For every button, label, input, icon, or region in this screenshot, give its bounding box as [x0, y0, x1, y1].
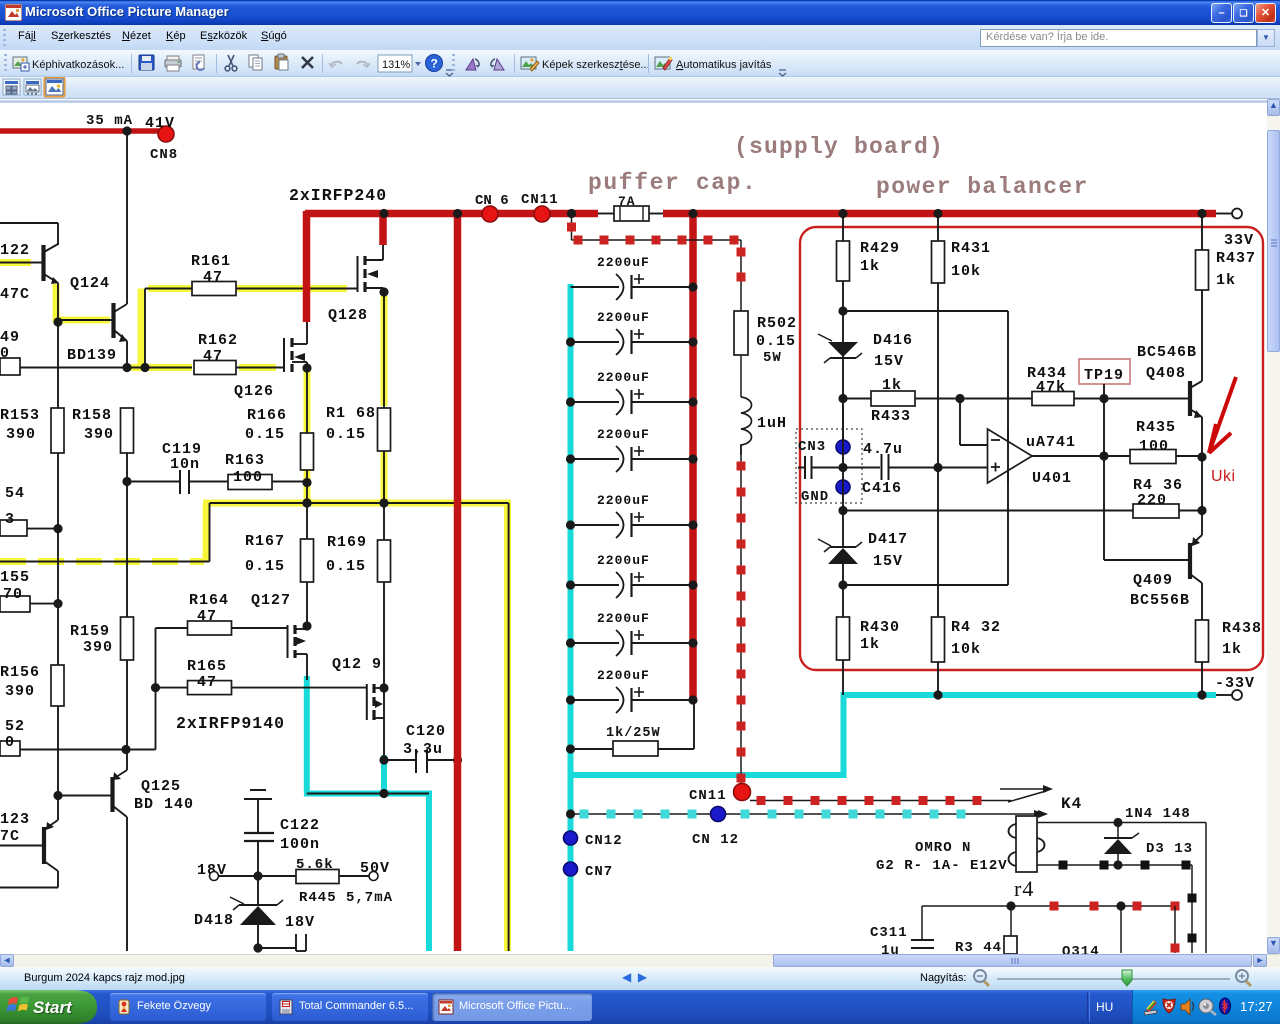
connector CN7 — [564, 862, 578, 876]
svg-text:R159: R159 — [70, 623, 110, 640]
resistor R430 — [837, 617, 850, 660]
svg-text:1uH: 1uH — [757, 415, 787, 432]
wire red-dotted from rail — [571, 216, 573, 240]
resistor R437 — [1201, 217, 1203, 250]
svg-text:2200uF: 2200uF — [597, 553, 650, 568]
svg-text:33V: 33V — [1224, 232, 1254, 249]
image top edge — [0, 100, 1267, 103]
svg-text:R165: R165 — [187, 658, 227, 675]
svg-text:R153: R153 — [0, 407, 40, 424]
svg-text:50V: 50V — [360, 860, 390, 877]
zener D418 — [257, 876, 259, 904]
op-amp U401 uA741 — [959, 399, 961, 446]
capacitor 2200uF #1 — [571, 286, 620, 288]
svg-text:R4 32: R4 32 — [951, 619, 1001, 636]
svg-text:390: 390 — [83, 639, 113, 656]
svg-text:OMRO N: OMRO N — [915, 840, 971, 856]
wire x58 — [57, 283, 59, 408]
delete X — [302, 57, 313, 68]
svg-text:R429: R429 — [860, 240, 900, 257]
wire x307 to R167 — [306, 470, 308, 539]
wire y503 row — [209, 503, 211, 562]
svg-text:D416: D416 — [873, 332, 913, 349]
svg-text:Képhivatkozások...: Képhivatkozások... — [32, 59, 124, 71]
switch K4 — [1000, 788, 1043, 790]
resistor R432 — [932, 617, 945, 662]
svg-text:R161: R161 — [191, 253, 231, 270]
cyan wire from Q127/Q129 source — [304, 676, 310, 794]
svg-text:C120: C120 — [406, 723, 446, 740]
svg-text:R431: R431 — [951, 240, 991, 257]
rail node dots — [379, 209, 388, 218]
svg-text:1k: 1k — [860, 258, 880, 275]
svg-text:R435: R435 — [1136, 419, 1176, 436]
svg-text:131%: 131% — [382, 59, 410, 71]
svg-text:47: 47 — [203, 269, 223, 286]
testpoint TP19 — [1079, 359, 1130, 384]
power balancer outline box — [800, 227, 1263, 670]
svg-text:CN11: CN11 — [689, 788, 727, 804]
svg-text:390: 390 — [5, 683, 35, 700]
svg-text:220: 220 — [1137, 492, 1167, 509]
start button — [0, 990, 110, 1024]
resistor R158 — [121, 408, 134, 453]
picture link icon — [13, 57, 29, 71]
svg-text:1N4 148: 1N4 148 — [1125, 806, 1191, 822]
volume gray — [1199, 999, 1213, 1013]
svg-text:70: 70 — [3, 586, 23, 603]
undo/redo grayed — [329, 62, 342, 67]
svg-text:1u: 1u — [881, 943, 900, 954]
svg-text:Start: Start — [33, 998, 73, 1017]
svg-text:47k: 47k — [1036, 379, 1066, 396]
svg-text:2200uF: 2200uF — [597, 310, 650, 325]
svg-text:47: 47 — [203, 348, 223, 365]
annotation red arrow Uki — [1209, 377, 1236, 453]
transistor Q314 stub — [1120, 906, 1122, 953]
zener D416 — [818, 334, 832, 341]
capacitor C311 — [921, 906, 923, 940]
svg-text:Q124: Q124 — [70, 275, 110, 292]
resistor R445 — [296, 870, 339, 884]
svg-text:Automatikus javítás: Automatikus javítás — [676, 59, 772, 71]
node dots x58 — [53, 317, 62, 326]
wire cyan-dashed net — [571, 813, 1041, 815]
resistor R436 — [843, 510, 1133, 512]
resistor 1k/25W — [566, 744, 575, 753]
red wire drop to Q126 — [303, 211, 311, 322]
svg-text:5W: 5W — [763, 350, 782, 366]
resistor R438 — [1201, 583, 1203, 620]
diode D313 1N4148 — [1117, 823, 1119, 840]
svg-text:2xIRFP240: 2xIRFP240 — [289, 186, 387, 205]
wire crossing op-amp — [1007, 429, 1009, 483]
svg-text:CN3: CN3 — [798, 439, 826, 455]
resistor R161 — [145, 288, 358, 290]
svg-text:41V: 41V — [145, 115, 175, 132]
svg-text:1k: 1k — [1222, 641, 1242, 658]
svg-text:R3 44: R3 44 — [955, 940, 1002, 954]
capacitor 2200uF #3 — [571, 401, 620, 403]
wire 35mA rail stub — [126, 131, 128, 304]
svg-text:R437: R437 — [1216, 250, 1256, 267]
relay r4 OMRON coil — [1016, 816, 1037, 872]
shield — [1163, 999, 1175, 1013]
svg-text:10k: 10k — [951, 641, 981, 658]
svg-text:100: 100 — [233, 469, 263, 486]
speaker orange — [1181, 999, 1190, 1015]
connector CN12 — [564, 831, 578, 845]
svg-text:R502: R502 — [757, 315, 797, 332]
red wire center bus — [454, 214, 462, 951]
svg-text:D418: D418 — [194, 912, 234, 929]
resistor R431 — [937, 216, 939, 241]
wire red-dashed K4 feed — [750, 800, 1011, 802]
svg-text:2200uF: 2200uF — [597, 427, 650, 442]
grip 2 — [456, 55, 458, 72]
svg-text:122: 122 — [0, 242, 30, 259]
capacitor 2200uF #2 — [571, 341, 620, 343]
svg-text:R169: R169 — [327, 534, 367, 551]
attach/preview — [193, 55, 204, 70]
svg-text:49: 49 — [0, 329, 20, 346]
svg-text:K4: K4 — [1061, 795, 1082, 813]
svg-text:123: 123 — [0, 811, 30, 828]
connector CN6 — [482, 206, 498, 222]
svg-text:(supply board): (supply board) — [734, 134, 944, 160]
capacitor C416 4.7u — [881, 454, 883, 480]
svg-text:C416: C416 — [862, 480, 902, 497]
cyan wire -33V rail — [841, 692, 1217, 698]
svg-text:R162: R162 — [198, 332, 238, 349]
capacitor C122 — [244, 832, 274, 834]
svg-text:CN12: CN12 — [585, 833, 623, 849]
svg-text:BD 140: BD 140 — [134, 796, 194, 813]
svg-text:R156: R156 — [0, 664, 40, 681]
resistor R435 — [1130, 450, 1176, 464]
svg-text:?: ? — [431, 57, 438, 71]
rotate right — [491, 59, 505, 70]
capacitor 2200uF #5 — [571, 524, 620, 526]
wire op-amp output — [1032, 455, 1130, 457]
svg-text:7C: 7C — [0, 828, 20, 845]
svg-text:U401: U401 — [1032, 470, 1072, 487]
connector CN12b — [711, 807, 726, 822]
resistor R433 — [838, 394, 847, 403]
svg-text:2200uF: 2200uF — [597, 611, 650, 626]
toolbar 2 view buttons — [0, 77, 80, 99]
svg-text:1k: 1k — [1216, 272, 1236, 289]
cyan wire capbank bus — [568, 284, 574, 951]
svg-text:0.15: 0.15 — [326, 426, 366, 443]
svg-text:R164: R164 — [189, 592, 229, 609]
svg-text:47: 47 — [197, 674, 217, 691]
resistor R156 — [51, 665, 64, 706]
svg-text:0.15: 0.15 — [245, 426, 285, 443]
task buttons — [110, 993, 266, 1021]
svg-text:1k: 1k — [860, 636, 880, 653]
svg-text:0: 0 — [5, 734, 15, 751]
pen tablet icon — [1144, 1010, 1157, 1015]
wire y793 row — [307, 793, 429, 795]
red wire 35mA rail — [0, 128, 159, 134]
svg-text:100n: 100n — [280, 836, 320, 853]
svg-text:7A: 7A — [618, 194, 636, 209]
capacitor 2200uF #8 — [571, 699, 620, 701]
svg-text:R163: R163 — [225, 452, 265, 469]
svg-text:GND: GND — [801, 489, 829, 505]
wire relay bottom pin black-dashed — [1037, 864, 1192, 866]
capacitor 2200uF #6 — [571, 584, 620, 586]
connector CN8 — [158, 126, 174, 142]
transistor Q409 — [1188, 543, 1192, 579]
svg-text:R1 68: R1 68 — [326, 405, 376, 422]
resistor R163 — [228, 475, 272, 490]
resistor R159 — [121, 617, 134, 660]
svg-text:10k: 10k — [951, 263, 981, 280]
svg-text:Képek szerkesztése...: Képek szerkesztése... — [542, 59, 650, 71]
resistor R153 — [51, 408, 64, 453]
connector block CN3/GND — [796, 429, 862, 503]
wire red-dotted to CN11 — [740, 455, 742, 786]
svg-text:r4: r4 — [1014, 876, 1034, 901]
cyan wire branch to -33V — [571, 772, 844, 778]
svg-text:D3 13: D3 13 — [1146, 841, 1193, 857]
capacitor C119 — [127, 481, 180, 483]
svg-text:0.15: 0.15 — [756, 333, 796, 350]
red wire stub Q128 — [379, 214, 387, 245]
svg-text:Q126: Q126 — [234, 383, 274, 400]
svg-text:CN 6: CN 6 — [475, 193, 509, 209]
resistor R344 — [1010, 906, 1012, 936]
svg-text:54: 54 — [5, 485, 25, 502]
svg-text:3,3u: 3,3u — [403, 741, 443, 758]
resistor R152 stub — [0, 741, 20, 756]
wire relay top pin — [1037, 822, 1206, 824]
wire to cap stub — [258, 947, 296, 949]
svg-text:155: 155 — [0, 569, 30, 586]
svg-text:Q127: Q127 — [251, 592, 291, 609]
svg-text:0: 0 — [0, 345, 10, 362]
red wire capbank bus — [689, 214, 697, 700]
wire top-left corner — [0, 222, 58, 224]
svg-text:Q12 9: Q12 9 — [332, 656, 382, 673]
resistor R165 — [156, 687, 367, 689]
resistor R166 — [301, 433, 314, 470]
svg-text:2200uF: 2200uF — [597, 370, 650, 385]
resistor R155 stub — [0, 596, 30, 612]
svg-text:CN 12: CN 12 — [692, 832, 739, 848]
svg-text:BD139: BD139 — [67, 347, 117, 364]
capacitor C120 — [384, 759, 416, 761]
resistor R168 — [378, 408, 391, 451]
terminal 50V — [369, 872, 378, 881]
svg-text:uA741: uA741 — [1026, 434, 1076, 451]
terminal 33V — [1216, 213, 1232, 215]
svg-text:R167: R167 — [245, 533, 285, 550]
transistor Q124 — [111, 303, 115, 338]
bluetooth — [1220, 998, 1231, 1014]
svg-text:Q128: Q128 — [328, 307, 368, 324]
svg-text:47C: 47C — [0, 286, 30, 303]
svg-text:2xIRFP9140: 2xIRFP9140 — [176, 714, 285, 733]
wire reference rect — [843, 310, 1008, 312]
svg-text:15V: 15V — [874, 353, 904, 370]
zener D417 — [818, 539, 831, 546]
connector CN11a — [534, 206, 550, 222]
picture edit icon — [521, 57, 539, 71]
svg-text:R430: R430 — [860, 619, 900, 636]
wire y367 row — [20, 367, 192, 369]
svg-text:R166: R166 — [247, 407, 287, 424]
svg-text:1k: 1k — [882, 377, 902, 394]
svg-text:47: 47 — [197, 608, 217, 625]
transistor Q123 — [42, 827, 46, 864]
svg-text:D417: D417 — [868, 531, 908, 548]
resistor R167 — [301, 539, 314, 582]
wire y750 row — [126, 749, 156, 751]
svg-text:52: 52 — [5, 718, 25, 735]
svg-text:2200uF: 2200uF — [597, 668, 650, 683]
svg-text:Q409: Q409 — [1133, 572, 1173, 589]
transistor Q122 — [41, 245, 45, 281]
svg-text:10n: 10n — [170, 456, 200, 473]
svg-text:Q314: Q314 — [1062, 944, 1100, 954]
svg-text:390: 390 — [84, 426, 114, 443]
ground symbol — [250, 789, 266, 791]
yellow highlight trail — [0, 259, 31, 266]
svg-text:R438: R438 — [1222, 620, 1262, 637]
resistor R502 — [734, 311, 748, 355]
svg-text:18V: 18V — [285, 914, 315, 931]
svg-text:G2 R- 1A- E12V: G2 R- 1A- E12V — [876, 858, 1008, 874]
MOSFET Q128 — [357, 256, 359, 292]
save — [139, 55, 154, 70]
wire riser x145 — [144, 289, 146, 368]
resistor R434 — [1032, 392, 1074, 406]
svg-text:5.6k: 5.6k — [296, 857, 334, 873]
svg-text:CN11: CN11 — [521, 192, 559, 208]
svg-text:0.15: 0.15 — [245, 558, 285, 575]
svg-text:100: 100 — [1139, 438, 1169, 455]
capacitor 2200uF #4 — [571, 458, 620, 460]
paste — [275, 54, 288, 70]
resistor R164 — [156, 627, 288, 629]
svg-text:Q408: Q408 — [1146, 365, 1186, 382]
transistor Q408 — [1188, 381, 1192, 416]
transistor Q125 — [110, 777, 114, 812]
auto correct icon — [655, 57, 672, 70]
help — [426, 55, 443, 72]
svg-text:C311: C311 — [870, 925, 908, 941]
print — [165, 56, 181, 71]
copy — [249, 55, 262, 70]
resistor R162 — [194, 361, 236, 375]
capacitor CN3 input — [798, 467, 805, 469]
MOSFET Q129 — [366, 684, 368, 720]
svg-text:-33V: -33V — [1215, 675, 1255, 692]
svg-text:2200uF: 2200uF — [597, 255, 650, 270]
svg-text:BC556B: BC556B — [1130, 592, 1190, 609]
svg-text:R158: R158 — [72, 407, 112, 424]
svg-text:TP19: TP19 — [1084, 367, 1124, 384]
svg-text:Uki: Uki — [1211, 468, 1236, 485]
svg-text:C122: C122 — [280, 817, 320, 834]
cut — [225, 55, 237, 71]
svg-text:CN7: CN7 — [585, 864, 613, 880]
resistor R169 — [378, 540, 391, 582]
svg-text:puffer cap.: puffer cap. — [588, 170, 757, 196]
svg-text:3: 3 — [5, 511, 15, 528]
svg-text:BC546B: BC546B — [1137, 344, 1197, 361]
inductor 1uH — [741, 397, 752, 455]
capacitor 2200uF #7 — [571, 642, 620, 644]
wire lower red-dashed row — [922, 905, 1175, 907]
resistor R429 — [842, 216, 844, 241]
terminal -33V — [1197, 690, 1206, 699]
svg-text:4.7u: 4.7u — [863, 441, 903, 458]
svg-text:power balancer: power balancer — [876, 174, 1089, 200]
svg-text:R445 5,7mA: R445 5,7mA — [299, 890, 393, 906]
rotate left — [466, 59, 480, 70]
svg-text:390: 390 — [6, 426, 36, 443]
svg-text:2200uF: 2200uF — [597, 493, 650, 508]
svg-text:0.15: 0.15 — [326, 558, 366, 575]
svg-text:1k/25W: 1k/25W — [606, 726, 661, 741]
connector CN11b — [734, 784, 751, 801]
svg-text:Q125: Q125 — [141, 778, 181, 795]
fuse 7A — [598, 213, 614, 215]
svg-text:35 mA: 35 mA — [86, 113, 133, 129]
MOSFET Q127 — [287, 625, 289, 658]
resistor R154 stub — [0, 520, 27, 536]
svg-text:CN8: CN8 — [150, 147, 178, 163]
tray — [1087, 992, 1088, 1022]
MOSFET Q126 — [283, 338, 285, 372]
svg-text:15V: 15V — [873, 553, 903, 570]
svg-text:R433: R433 — [871, 408, 911, 425]
red wire main top rail — [305, 210, 598, 218]
